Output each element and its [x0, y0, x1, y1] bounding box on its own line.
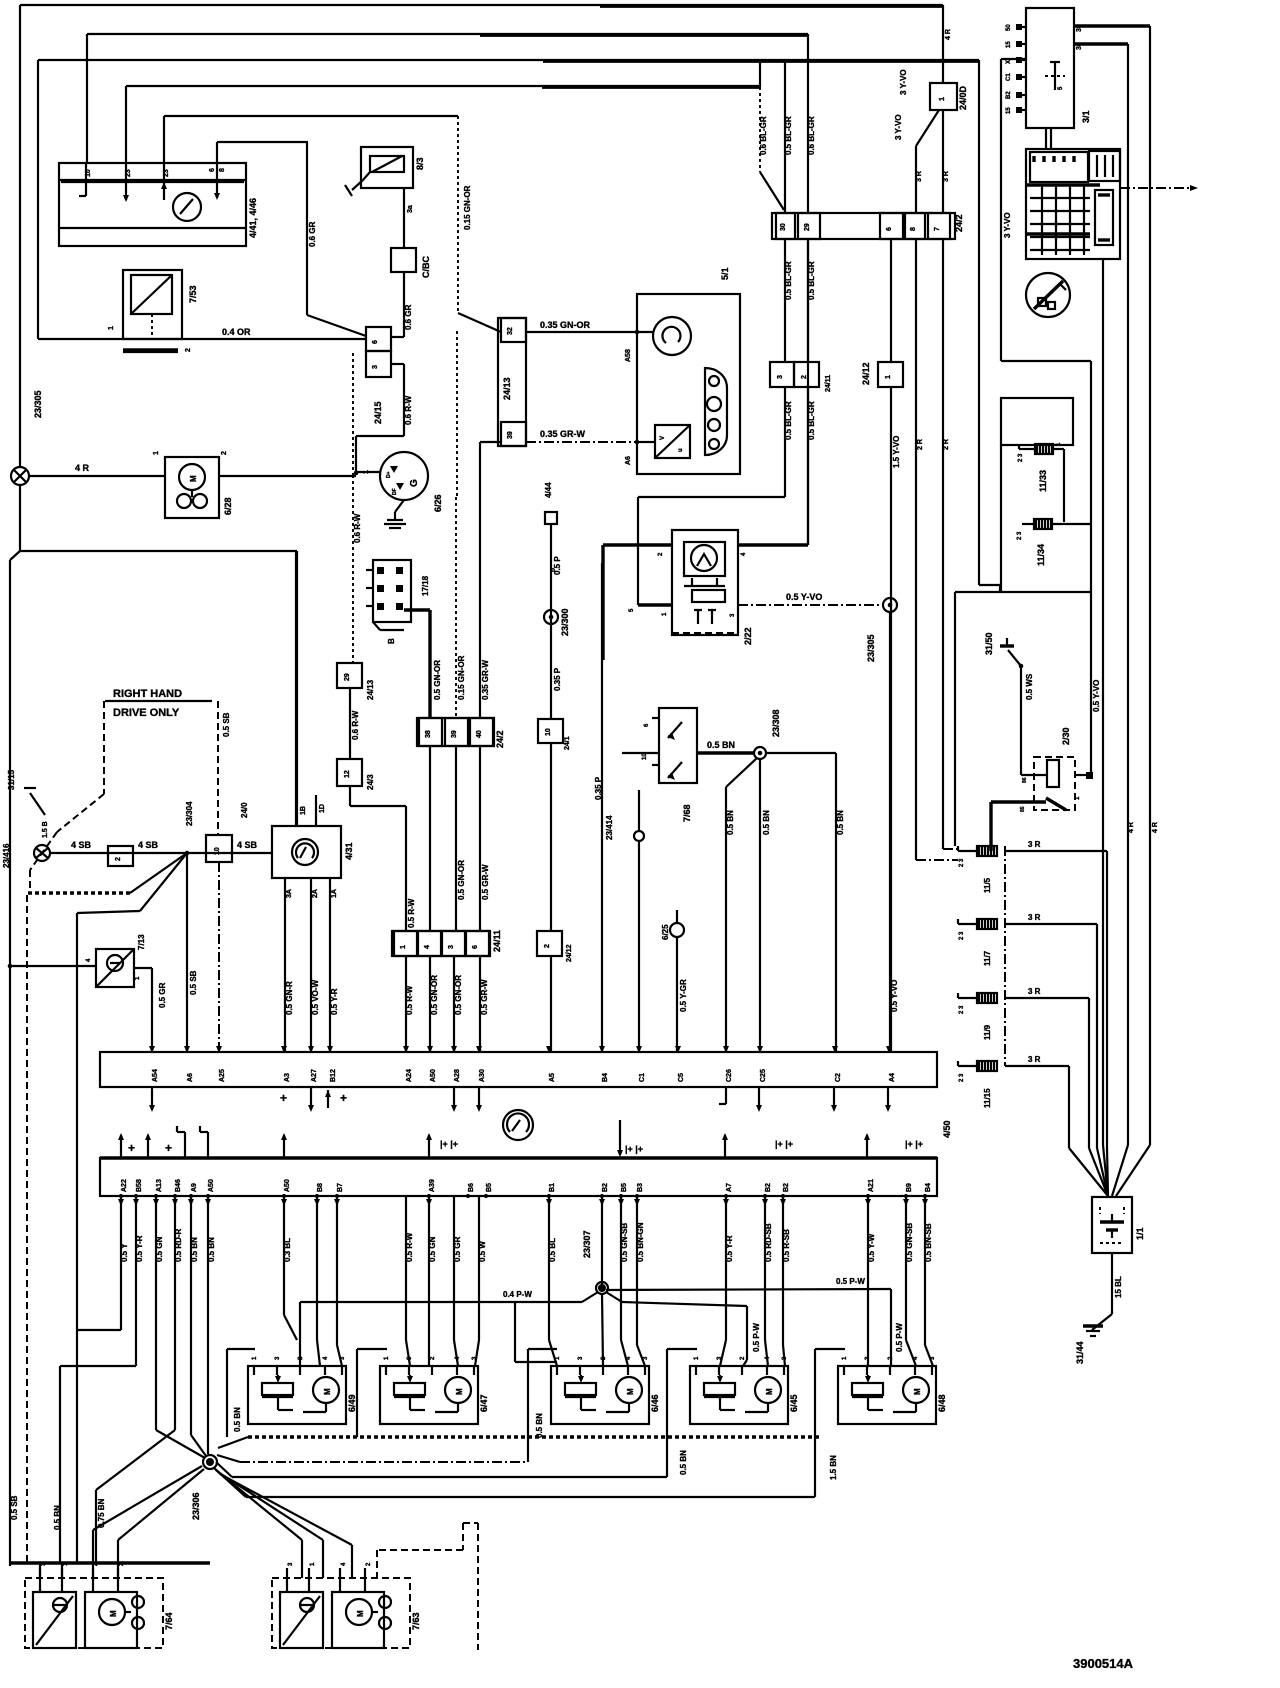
- svg-text:15 BL: 15 BL: [1114, 1276, 1123, 1298]
- svg-text:2 3: 2 3: [959, 858, 965, 867]
- svg-text:23/308: 23/308: [771, 709, 781, 737]
- svg-text:6/47: 6/47: [479, 1394, 489, 1412]
- svg-text:u: u: [678, 448, 684, 452]
- svg-text:M: M: [455, 1388, 464, 1395]
- svg-text:3900514A: 3900514A: [1073, 1656, 1134, 1671]
- svg-text:1: 1: [400, 945, 407, 949]
- svg-text:0.5 BL-GR: 0.5 BL-GR: [784, 401, 793, 440]
- svg-text:30: 30: [1076, 24, 1083, 32]
- svg-text:0.5 RD-SB: 0.5 RD-SB: [764, 1223, 773, 1262]
- svg-text:1: 1: [108, 326, 115, 330]
- svg-text:0.5 BN: 0.5 BN: [679, 1450, 688, 1475]
- svg-text:0.5 BN: 0.5 BN: [233, 1407, 242, 1432]
- svg-text:0.5 R-W: 0.5 R-W: [407, 898, 416, 928]
- svg-text:A50: A50: [208, 1179, 215, 1192]
- svg-text:32: 32: [507, 327, 514, 335]
- svg-text:3 R: 3 R: [916, 171, 923, 182]
- svg-text:1: 1: [885, 375, 892, 379]
- svg-text:A30: A30: [479, 1069, 486, 1082]
- svg-text:0.5 GN-OR: 0.5 GN-OR: [457, 860, 466, 900]
- svg-text:0.5 GN: 0.5 GN: [155, 1236, 164, 1262]
- svg-text:DRIVE ONLY: DRIVE ONLY: [113, 707, 180, 719]
- svg-text:A13: A13: [156, 1179, 163, 1192]
- svg-text:2A: 2A: [312, 889, 319, 898]
- svg-text:0.5 GN: 0.5 GN: [428, 1236, 437, 1262]
- svg-text:2 3: 2 3: [959, 1073, 965, 1082]
- svg-text:B4: B4: [602, 1073, 609, 1082]
- svg-text:0.35 P: 0.35 P: [594, 776, 603, 800]
- svg-text:0.5 GN-R: 0.5 GN-R: [285, 981, 294, 1015]
- svg-text:A54: A54: [152, 1069, 159, 1082]
- svg-text:4 R: 4 R: [945, 29, 952, 40]
- svg-text:1A: 1A: [331, 889, 338, 898]
- svg-text:6/28: 6/28: [223, 497, 233, 515]
- svg-text:4 SB: 4 SB: [138, 840, 159, 850]
- svg-text:0.15 GN-OR: 0.15 GN-OR: [457, 655, 466, 700]
- svg-text:A6: A6: [187, 1073, 194, 1082]
- svg-text:1D: 1D: [319, 804, 326, 813]
- svg-text:2/30: 2/30: [1061, 727, 1071, 745]
- svg-text:B5: B5: [486, 1183, 493, 1192]
- svg-text:M: M: [626, 1388, 635, 1395]
- svg-text:0.5 BN: 0.5 BN: [207, 1237, 216, 1262]
- svg-text:0.5 SB: 0.5 SB: [189, 970, 198, 995]
- svg-text:0.5 GR: 0.5 GR: [158, 982, 167, 1008]
- svg-text:12: 12: [344, 770, 351, 778]
- svg-text:4/50: 4/50: [942, 1120, 952, 1138]
- svg-text:2 3: 2 3: [959, 931, 965, 940]
- svg-text:0.5 Y-R: 0.5 Y-R: [725, 1235, 734, 1262]
- svg-text:0.6 GR: 0.6 GR: [404, 304, 413, 330]
- svg-text:7/64: 7/64: [164, 1612, 174, 1630]
- svg-text:A5: A5: [549, 1073, 556, 1082]
- svg-text:B2: B2: [783, 1183, 790, 1192]
- svg-text:11/33: 11/33: [1038, 470, 1048, 492]
- svg-text:0.5 GN-OR: 0.5 GN-OR: [433, 660, 442, 700]
- svg-text:0.5 BN: 0.5 BN: [707, 740, 735, 750]
- svg-text:2 3: 2 3: [1018, 453, 1024, 462]
- svg-text:0.5 GN-SB: 0.5 GN-SB: [620, 1223, 629, 1262]
- svg-text:X: X: [1006, 60, 1012, 64]
- svg-text:C26: C26: [726, 1069, 733, 1082]
- svg-text:24/0: 24/0: [240, 802, 249, 818]
- svg-text:2 R: 2 R: [917, 439, 924, 450]
- svg-text:2 3: 2 3: [959, 1005, 965, 1014]
- svg-text:0.5 WS: 0.5 WS: [1025, 673, 1034, 700]
- svg-text:6: 6: [886, 227, 893, 231]
- svg-text:23/300: 23/300: [560, 608, 570, 636]
- svg-text:0.5 R-SB: 0.5 R-SB: [782, 1229, 791, 1262]
- svg-text:0.5 Y-VO: 0.5 Y-VO: [786, 592, 822, 602]
- svg-text:15: 15: [1006, 41, 1012, 48]
- svg-text:0.5 BN: 0.5 BN: [53, 1505, 62, 1530]
- svg-text:0.5 BN: 0.5 BN: [190, 1237, 199, 1262]
- svg-text:2: 2: [185, 348, 192, 352]
- svg-text:0.5 P-W: 0.5 P-W: [895, 1323, 904, 1352]
- svg-text:+: +: [340, 1091, 347, 1105]
- svg-text:23/305: 23/305: [866, 634, 876, 662]
- svg-text:B7: B7: [337, 1183, 344, 1192]
- svg-text:24/2: 24/2: [495, 730, 505, 748]
- svg-text:M: M: [109, 1610, 118, 1617]
- svg-text:3: 3: [777, 375, 784, 379]
- svg-text:3 Y-VO: 3 Y-VO: [894, 114, 903, 140]
- svg-text:0.5 SB: 0.5 SB: [10, 1495, 19, 1520]
- svg-text:|+ |+: |+ |+: [905, 1139, 923, 1149]
- svg-text:M: M: [356, 1610, 365, 1617]
- svg-text:23/416: 23/416: [2, 843, 11, 868]
- svg-text:0.6 R-W: 0.6 R-W: [351, 710, 360, 740]
- svg-text:0.5 W: 0.5 W: [478, 1241, 487, 1262]
- svg-text:30: 30: [780, 223, 787, 231]
- svg-text:2/22: 2/22: [743, 627, 753, 645]
- svg-text:11/5: 11/5: [983, 877, 992, 893]
- svg-text:24/13: 24/13: [366, 679, 375, 700]
- svg-text:0.5 SB: 0.5 SB: [222, 712, 231, 737]
- svg-text:A28: A28: [454, 1069, 461, 1082]
- svg-text:0.35 P: 0.35 P: [553, 667, 562, 691]
- svg-text:17/18: 17/18: [421, 575, 430, 596]
- svg-text:3 Y-VO: 3 Y-VO: [1003, 212, 1012, 238]
- svg-text:0.5 GN-SB: 0.5 GN-SB: [905, 1223, 914, 1262]
- svg-text:8: 8: [910, 227, 917, 231]
- svg-text:1B: 1B: [300, 806, 307, 815]
- svg-text:6/49: 6/49: [347, 1394, 357, 1412]
- svg-text:0.5 GN-OR: 0.5 GN-OR: [454, 975, 463, 1015]
- svg-text:0.3 BL: 0.3 BL: [283, 1238, 292, 1262]
- svg-text:M: M: [323, 1388, 332, 1395]
- svg-text:1.5 BN: 1.5 BN: [829, 1455, 838, 1480]
- svg-text:6/26: 6/26: [433, 494, 443, 512]
- svg-text:11/15: 11/15: [983, 1088, 992, 1108]
- svg-text:B6: B6: [468, 1183, 475, 1192]
- svg-text:0.5 R-W: 0.5 R-W: [405, 1232, 414, 1262]
- svg-text:0.5 Y-VO: 0.5 Y-VO: [890, 980, 899, 1012]
- svg-text:2: 2: [544, 944, 551, 948]
- svg-text:A3: A3: [284, 1073, 291, 1082]
- svg-text:4/44: 4/44: [544, 482, 553, 498]
- svg-text:86: 86: [1022, 777, 1028, 783]
- svg-text:3 R: 3 R: [1028, 840, 1041, 849]
- svg-text:A24: A24: [406, 1069, 413, 1082]
- svg-text:0.5 BN-SB: 0.5 BN-SB: [924, 1223, 933, 1262]
- svg-text:0.6 GR: 0.6 GR: [308, 221, 317, 247]
- svg-text:B1: B1: [549, 1183, 556, 1192]
- svg-text:0.5 BL-GR: 0.5 BL-GR: [784, 116, 793, 155]
- svg-text:31/15: 31/15: [7, 769, 16, 790]
- svg-text:7/13: 7/13: [137, 934, 146, 950]
- svg-text:+: +: [280, 1091, 287, 1105]
- svg-text:1: 1: [153, 451, 160, 455]
- svg-text:6/45: 6/45: [789, 1394, 799, 1412]
- svg-text:0.5 Y-VO: 0.5 Y-VO: [1092, 680, 1101, 712]
- svg-text:3 Y-VO: 3 Y-VO: [899, 69, 908, 95]
- svg-text:0.5 BL: 0.5 BL: [548, 1238, 557, 1262]
- svg-text:C1: C1: [1006, 73, 1012, 81]
- svg-text:10: 10: [545, 728, 552, 736]
- svg-text:15: 15: [1006, 107, 1012, 114]
- svg-text:5/1: 5/1: [720, 267, 730, 280]
- svg-text:11/9: 11/9: [983, 1024, 992, 1040]
- svg-text:B3: B3: [637, 1183, 644, 1192]
- svg-text:C25: C25: [760, 1069, 767, 1082]
- svg-text:23: 23: [125, 169, 132, 177]
- svg-text:0.5 GR-W: 0.5 GR-W: [480, 979, 489, 1015]
- svg-text:A21: A21: [868, 1179, 875, 1192]
- svg-text:30: 30: [1076, 42, 1083, 50]
- svg-text:|+ |+: |+ |+: [625, 1144, 643, 1154]
- svg-text:4 R: 4 R: [75, 463, 90, 473]
- svg-text:24/2: 24/2: [954, 214, 964, 232]
- svg-text:23/307: 23/307: [582, 1230, 592, 1258]
- svg-text:0.5 VO-W: 0.5 VO-W: [311, 979, 320, 1015]
- svg-text:6/48: 6/48: [937, 1394, 947, 1412]
- svg-text:6: 6: [472, 945, 479, 949]
- svg-text:24/11: 24/11: [825, 375, 832, 392]
- svg-text:6: 6: [372, 340, 379, 344]
- svg-text:0.5 Y-R: 0.5 Y-R: [135, 1235, 144, 1262]
- svg-text:D+: D+: [386, 471, 392, 478]
- svg-text:0.35 GR-W: 0.35 GR-W: [540, 429, 586, 439]
- svg-text:38: 38: [425, 730, 432, 738]
- svg-text:10: 10: [214, 847, 221, 855]
- svg-text:A25: A25: [219, 1069, 226, 1082]
- svg-text:B2: B2: [765, 1183, 772, 1192]
- svg-text:31/50: 31/50: [984, 632, 994, 655]
- svg-text:0.4 P-W: 0.4 P-W: [503, 1290, 532, 1299]
- svg-text:1: 1: [363, 470, 370, 474]
- svg-text:M: M: [765, 1388, 774, 1395]
- svg-text:3 R: 3 R: [1028, 1055, 1041, 1064]
- svg-text:0.6 BL-GR: 0.6 BL-GR: [807, 116, 816, 155]
- svg-text:11/34: 11/34: [1036, 544, 1046, 566]
- svg-text:DF: DF: [392, 488, 398, 495]
- svg-text:A6: A6: [625, 456, 632, 465]
- svg-text:0.75 BN: 0.75 BN: [97, 1498, 106, 1528]
- svg-text:2 R: 2 R: [943, 439, 950, 450]
- svg-text:A22: A22: [121, 1179, 128, 1192]
- svg-text:B5: B5: [621, 1183, 628, 1192]
- svg-text:A39: A39: [429, 1179, 436, 1192]
- svg-text:6: 6: [209, 168, 216, 172]
- svg-text:24/15: 24/15: [373, 401, 383, 424]
- svg-text:10: 10: [642, 753, 648, 760]
- svg-text:24/3: 24/3: [366, 774, 375, 790]
- svg-text:2: 2: [115, 857, 122, 861]
- svg-text:B: B: [387, 638, 396, 644]
- svg-text:B2: B2: [602, 1183, 609, 1192]
- svg-text:+: +: [165, 1141, 172, 1155]
- svg-text:B2: B2: [1006, 91, 1012, 99]
- svg-text:4/31: 4/31: [344, 842, 354, 860]
- svg-text:4 R: 4 R: [1128, 822, 1135, 833]
- svg-text:0.5 BN-GN: 0.5 BN-GN: [636, 1222, 645, 1262]
- svg-text:A50: A50: [284, 1179, 291, 1192]
- svg-text:2: 2: [801, 375, 808, 379]
- svg-text:23/306: 23/306: [191, 1492, 201, 1520]
- svg-text:+: +: [128, 1141, 135, 1155]
- svg-text:C5: C5: [678, 1073, 685, 1082]
- svg-text:29: 29: [804, 223, 811, 231]
- svg-text:A9: A9: [191, 1183, 198, 1192]
- svg-text:0.5 P-W: 0.5 P-W: [836, 1277, 865, 1286]
- svg-text:24/12: 24/12: [566, 944, 573, 962]
- svg-text:|+ |+: |+ |+: [440, 1139, 458, 1149]
- svg-text:B9: B9: [906, 1183, 913, 1192]
- svg-text:B58: B58: [136, 1179, 143, 1192]
- svg-text:85: 85: [1020, 806, 1026, 812]
- svg-text:1.5 B: 1.5 B: [42, 821, 49, 838]
- svg-text:6/25: 6/25: [661, 924, 670, 940]
- svg-text:0.5 RD-R: 0.5 RD-R: [174, 1228, 183, 1262]
- svg-text:0.35 GN-OR: 0.35 GN-OR: [540, 320, 591, 330]
- svg-text:3 R: 3 R: [1028, 987, 1041, 996]
- svg-text:M: M: [189, 475, 198, 482]
- svg-text:0.6 BL-GR: 0.6 BL-GR: [759, 116, 768, 155]
- svg-text:2 3: 2 3: [1017, 531, 1023, 540]
- svg-text:RIGHT HAND: RIGHT HAND: [113, 688, 182, 700]
- svg-text:0.5 Y-W: 0.5 Y-W: [867, 1233, 876, 1262]
- svg-text:0.35 GR-W: 0.35 GR-W: [481, 660, 490, 700]
- svg-text:3 R: 3 R: [1028, 913, 1041, 922]
- svg-text:0.15 GN-OR: 0.15 GN-OR: [463, 185, 472, 230]
- svg-text:4 SB: 4 SB: [71, 840, 92, 850]
- svg-text:0.5 GR-W: 0.5 GR-W: [481, 864, 490, 900]
- svg-text:A58: A58: [625, 349, 632, 362]
- svg-text:8: 8: [219, 168, 226, 172]
- svg-text:4: 4: [424, 945, 431, 949]
- svg-text:4/41, 4/46: 4/41, 4/46: [248, 198, 258, 238]
- svg-text:24/12: 24/12: [861, 362, 871, 385]
- svg-text:23/304: 23/304: [185, 801, 194, 826]
- svg-text:0.5 BN: 0.5 BN: [535, 1413, 544, 1438]
- svg-text:7/68: 7/68: [682, 804, 692, 822]
- svg-text:8/3: 8/3: [415, 157, 425, 170]
- svg-text:40: 40: [476, 730, 483, 738]
- svg-text:50: 50: [1006, 24, 1012, 31]
- svg-text:C2: C2: [835, 1073, 842, 1082]
- svg-text:4 R: 4 R: [1152, 822, 1159, 833]
- svg-text:0.5 BL-GR: 0.5 BL-GR: [807, 401, 816, 440]
- svg-text:M: M: [913, 1388, 922, 1395]
- svg-text:0.5 GN-OR: 0.5 GN-OR: [430, 975, 439, 1015]
- svg-text:0.5 BN: 0.5 BN: [762, 810, 771, 835]
- svg-text:A4: A4: [889, 1073, 896, 1082]
- svg-text:3 R: 3 R: [943, 171, 950, 182]
- svg-text:0.5 BN: 0.5 BN: [836, 810, 845, 835]
- svg-text:7: 7: [934, 227, 941, 231]
- svg-text:0.6 R-W: 0.6 R-W: [404, 395, 413, 425]
- svg-text:6/46: 6/46: [650, 1394, 660, 1412]
- svg-text:39: 39: [451, 730, 458, 738]
- svg-text:3: 3: [372, 365, 379, 369]
- svg-text:7/53: 7/53: [188, 285, 198, 303]
- svg-text:23: 23: [163, 169, 170, 177]
- svg-text:0.5 Y-R: 0.5 Y-R: [330, 988, 339, 1015]
- svg-text:0.6 R-W: 0.6 R-W: [353, 513, 362, 543]
- svg-text:B4: B4: [925, 1183, 932, 1192]
- svg-text:1/1: 1/1: [1135, 1227, 1145, 1240]
- svg-text:23/305: 23/305: [33, 390, 43, 418]
- svg-text:39: 39: [507, 431, 514, 439]
- svg-text:31/44: 31/44: [1075, 1341, 1085, 1364]
- svg-text:24/11: 24/11: [492, 930, 502, 952]
- svg-text:P: P: [552, 568, 558, 572]
- svg-text:C/BC: C/BC: [421, 256, 431, 278]
- svg-text:11/7: 11/7: [983, 950, 992, 966]
- svg-text:24/13: 24/13: [502, 377, 512, 400]
- svg-text:24/1: 24/1: [564, 736, 571, 750]
- svg-text:V: V: [660, 436, 666, 440]
- svg-text:G: G: [409, 479, 420, 487]
- svg-text:0.5 Y-GR: 0.5 Y-GR: [679, 979, 688, 1012]
- svg-text:0.5 R-W: 0.5 R-W: [405, 985, 414, 1015]
- svg-text:B8: B8: [317, 1183, 324, 1192]
- svg-text:A50: A50: [430, 1069, 437, 1082]
- svg-text:7/63: 7/63: [411, 1612, 421, 1630]
- svg-text:24/0D: 24/0D: [958, 85, 968, 110]
- svg-text:0.4 OR: 0.4 OR: [222, 327, 251, 337]
- svg-text:B46: B46: [175, 1179, 182, 1192]
- svg-text:2: 2: [221, 451, 228, 455]
- svg-text:|+ |+: |+ |+: [775, 1139, 793, 1149]
- svg-text:10: 10: [85, 169, 92, 177]
- svg-text:0.5 BN: 0.5 BN: [726, 810, 735, 835]
- svg-text:29: 29: [344, 673, 351, 681]
- svg-text:A7: A7: [726, 1183, 733, 1192]
- svg-text:C1: C1: [639, 1073, 646, 1082]
- svg-text:0.5 BL-GR: 0.5 BL-GR: [784, 261, 793, 300]
- svg-text:4 SB: 4 SB: [237, 840, 258, 850]
- svg-text:1.5 Y-VO: 1.5 Y-VO: [892, 436, 901, 468]
- svg-text:B12: B12: [330, 1069, 337, 1082]
- svg-text:3A: 3A: [286, 889, 293, 898]
- svg-text:0.5 Y: 0.5 Y: [120, 1243, 129, 1262]
- svg-text:1: 1: [939, 97, 946, 101]
- svg-text:A27: A27: [311, 1069, 318, 1082]
- svg-text:23/414: 23/414: [605, 815, 614, 840]
- svg-text:0.5 GR: 0.5 GR: [453, 1236, 462, 1262]
- svg-text:3/1: 3/1: [1081, 110, 1091, 123]
- svg-text:3a: 3a: [407, 205, 414, 213]
- svg-text:0.5 BL-GR: 0.5 BL-GR: [807, 261, 816, 300]
- svg-text:3: 3: [448, 945, 455, 949]
- svg-text:0.5 P-W: 0.5 P-W: [752, 1323, 761, 1352]
